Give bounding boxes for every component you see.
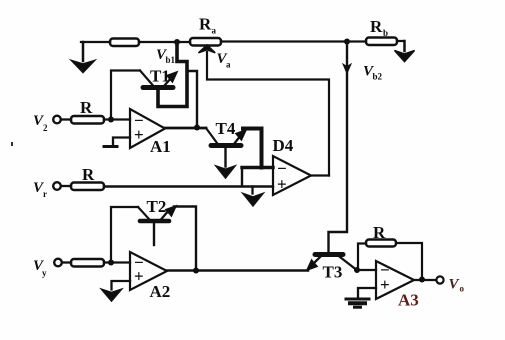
op-amp A3 xyxy=(376,261,414,299)
transistor T1 xyxy=(140,71,178,88)
svg-text:a: a xyxy=(226,60,231,70)
terminal circle Vr xyxy=(53,182,61,190)
node junction dot A3 minus xyxy=(354,267,360,273)
svg-text:R: R xyxy=(370,17,383,36)
svg-text:T3: T3 xyxy=(323,263,343,282)
svg-text:+: + xyxy=(134,125,144,144)
wire D4 output to Va line xyxy=(311,174,329,176)
svg-text:r: r xyxy=(43,189,47,199)
node junction dot A1 output xyxy=(194,125,200,131)
node junction dot A1 minus input xyxy=(108,117,114,123)
terminal circle Vy xyxy=(54,259,62,267)
svg-text:+: + xyxy=(380,275,390,294)
label T2 xyxy=(147,197,167,216)
speck noise left margin xyxy=(11,142,13,146)
op-amp A1 xyxy=(130,109,165,148)
wire A1 plus input to ground xyxy=(113,138,130,147)
wire A3 plus to ground xyxy=(358,288,376,298)
svg-text:b2: b2 xyxy=(373,72,383,82)
wire junction to A3 minus xyxy=(357,269,376,271)
label Vr xyxy=(33,180,47,199)
label A1 xyxy=(150,137,171,156)
wire Vb1 zigzag from top bus to T1 base loop xyxy=(158,42,187,107)
label Vb2 xyxy=(363,64,383,82)
svg-text:2: 2 xyxy=(43,123,48,133)
svg-text:b: b xyxy=(383,28,388,38)
label D4 xyxy=(273,136,294,155)
transistor T4 xyxy=(206,128,247,146)
svg-text:A1: A1 xyxy=(150,137,171,156)
op-amp D4 xyxy=(273,156,311,195)
ground A3 (hatched) xyxy=(346,299,369,307)
wire T2 emitter to A2 output xyxy=(174,207,196,272)
label R (A3) xyxy=(373,223,386,242)
power arrow right of Rb xyxy=(395,51,415,62)
wire stub left supply xyxy=(82,42,85,61)
label Vo xyxy=(449,277,465,294)
svg-text:A2: A2 xyxy=(150,282,171,301)
resistor R (V2 input) xyxy=(71,116,104,124)
svg-text:D4: D4 xyxy=(273,136,294,155)
node junction dot A3 output xyxy=(419,277,425,283)
label R (Vr) xyxy=(82,165,95,184)
resistor R (A3 feedback) xyxy=(366,240,396,247)
terminal circle Vo xyxy=(436,276,443,283)
svg-text:T1: T1 xyxy=(150,67,170,86)
ground (A1 plus, small bar) xyxy=(104,145,117,148)
wire Rb to supply arrow xyxy=(403,41,406,51)
resistor (unlabeled, top-left) xyxy=(110,39,139,47)
wire T1 collector to A1 inverting input xyxy=(111,71,140,120)
resistor R (Vr input) xyxy=(71,183,104,191)
wire riser T1 area to A1 output xyxy=(187,71,197,127)
wire T4 base to supply arrow xyxy=(224,148,226,167)
wire Vb2 vertical from top bus to T3 xyxy=(329,42,348,253)
node junction dot top wire / Vb2 line xyxy=(344,39,350,45)
label T3 xyxy=(323,263,343,282)
label A3 xyxy=(398,291,419,310)
node junction dot top wire / T1 xyxy=(174,39,180,45)
wire top bus y=42 xyxy=(81,41,404,42)
wire Va down and right to D4 output xyxy=(207,52,329,176)
wire V2 to R xyxy=(61,118,71,120)
label Rb xyxy=(370,17,388,38)
svg-text:R: R xyxy=(199,15,212,34)
op-amp A2 xyxy=(130,252,167,290)
power arrow top-left (negative supply) xyxy=(72,61,95,73)
wire A2 output to T3 emitter xyxy=(167,269,308,272)
wire Vy to R xyxy=(62,261,71,263)
svg-text:R: R xyxy=(80,98,93,117)
resistor Ra xyxy=(190,38,221,46)
svg-text:o: o xyxy=(460,284,465,294)
power arrow below T4 xyxy=(216,166,235,178)
label Ra xyxy=(199,15,217,36)
label Vy xyxy=(33,258,47,278)
arrow small on Vb2 wire xyxy=(343,64,351,74)
wire D4 minus input xyxy=(242,166,273,169)
svg-text:b1: b1 xyxy=(166,55,176,65)
wire R to A1 xyxy=(104,118,130,120)
power arrow below D4 xyxy=(243,194,263,206)
svg-text:R: R xyxy=(82,165,95,184)
svg-text:R: R xyxy=(373,223,386,242)
label R (V2) xyxy=(80,98,93,117)
wire T2 base stub xyxy=(153,223,155,245)
svg-text:+: + xyxy=(134,267,144,286)
wire A2 plus to supply arrow xyxy=(112,281,131,290)
wire T4 emitter to D4 minus xyxy=(243,129,262,168)
wire Vr to D4 xyxy=(104,168,273,187)
node junction dot A2 output xyxy=(193,268,199,274)
label Vb1 xyxy=(156,47,176,65)
label V2 xyxy=(33,113,48,133)
wire R right leg to A3 output xyxy=(396,243,422,280)
svg-text:T2: T2 xyxy=(147,197,167,216)
wire A3 output xyxy=(414,279,436,281)
wire D4 plus input to supply arrow xyxy=(251,187,253,194)
wire A1 output xyxy=(165,127,206,130)
wire R feedback left leg xyxy=(358,244,366,271)
svg-text:y: y xyxy=(42,268,47,278)
svg-text:a: a xyxy=(212,26,217,36)
transistor T2 xyxy=(138,206,177,222)
node junction dot A2 minus input xyxy=(108,260,114,266)
label Va xyxy=(217,51,232,70)
wire A2 feedback left side xyxy=(111,207,138,263)
svg-text:A3: A3 xyxy=(398,291,419,310)
resistor (Vy input) xyxy=(71,259,104,267)
label T1 xyxy=(150,67,170,86)
transistor T3 xyxy=(307,255,357,271)
label A2 xyxy=(150,282,171,301)
wire R to A2 xyxy=(104,261,130,263)
label T4 xyxy=(216,119,236,138)
svg-text:T4: T4 xyxy=(216,119,236,138)
power arrow below A2 xyxy=(102,289,122,301)
resistor Rb xyxy=(366,38,397,46)
node Va arrow (points up at Ra) xyxy=(199,45,216,53)
terminal circle V2 xyxy=(53,116,61,124)
wire Vr to R xyxy=(61,185,71,187)
svg-text:+: + xyxy=(277,175,287,194)
